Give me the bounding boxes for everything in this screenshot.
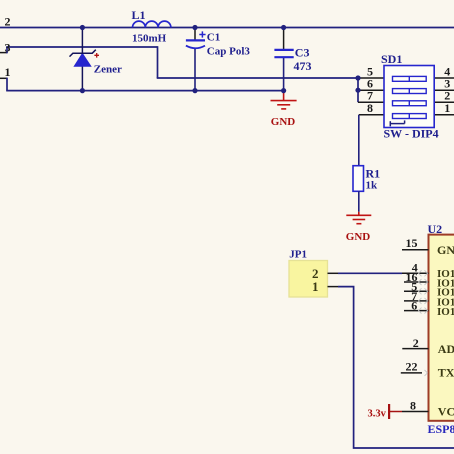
svg-text:GND: GND (437, 243, 454, 257)
switch SD1 row 4 (393, 114, 427, 119)
wire vertical x=358 to DIP pins (357, 77, 359, 102)
wire C3 top stub (283, 28, 285, 50)
wire C3 bottom stub (283, 58, 285, 91)
svg-text:2: 2 (5, 14, 11, 28)
U2 pin 2 stub (402, 348, 428, 350)
U2 pin 6 stub (404, 310, 429, 312)
U2 pin 16 stub (404, 281, 429, 283)
svg-text:GND: GND (271, 116, 296, 128)
resistor R1 body (353, 166, 364, 192)
svg-text:1: 1 (5, 65, 11, 79)
wire JP1 pin2 to U2 pin4 (338, 272, 402, 274)
inductor L1 (133, 21, 171, 27)
svg-text:15: 15 (406, 236, 418, 250)
capacitor C1 (polarized) (186, 31, 206, 48)
junction node mid-pin5 (355, 75, 360, 80)
wire pin1 vertical jog (6, 78, 8, 91)
wire R1 bottom stub (358, 191, 360, 212)
wire mid net step down x=157.5 (157, 46, 159, 78)
svg-text:JP1: JP1 (289, 249, 307, 261)
wire pin8 to R1 vertical (358, 115, 360, 166)
junction node mid-pin6 (355, 88, 360, 93)
diode D zener symbol (70, 50, 96, 66)
svg-text:473: 473 (294, 59, 312, 73)
U2 pin 5 stub (404, 290, 429, 292)
svg-text:SW - DIP4: SW - DIP4 (384, 127, 439, 141)
wire pin1 entry jog (0, 77, 7, 79)
U2 pin 22 stub (401, 372, 422, 374)
wire zener branch vertical x=82.4 (81, 28, 83, 91)
wire mid net horizontal y=47 (6, 46, 157, 48)
U2 pin 15 stub (402, 249, 429, 251)
wire JP1 pin1 down and along bottom (338, 287, 454, 448)
junction node VIN-C3 (281, 25, 286, 30)
junction node GND-zener (80, 88, 85, 93)
switch SD1 row 3 (393, 101, 427, 106)
wire gnd net horizontal y=90.6 (6, 90, 283, 92)
switch SD1 actuator (390, 120, 404, 126)
junction node VIN-C1 (192, 25, 197, 30)
ground symbol at R1 (346, 212, 371, 224)
svg-text:ADC: ADC (438, 342, 454, 356)
connector JP1 body (289, 261, 328, 298)
svg-text:C1: C1 (207, 31, 220, 43)
svg-text:U2: U2 (428, 222, 443, 236)
wire C1 bottom stub (194, 49, 196, 91)
svg-text:VCC: VCC (438, 405, 454, 419)
ground symbol at C3 (271, 91, 297, 109)
svg-text:2: 2 (413, 336, 419, 350)
svg-text:C3: C3 (295, 45, 310, 59)
svg-text:8: 8 (367, 101, 373, 115)
svg-text:1: 1 (444, 101, 450, 115)
switch SD1 row 2 (393, 89, 427, 94)
U2 pin 4 stub (402, 272, 429, 274)
svg-text:22: 22 (406, 360, 418, 374)
switch SD1 body (384, 66, 434, 128)
power port 3.3v bar (388, 404, 390, 419)
svg-text:TXD: TXD (438, 366, 454, 380)
wire pin3 net vertical jog (6, 47, 8, 53)
JP1 pin 1 stub (328, 286, 339, 288)
U2 pin 8 stub (402, 411, 429, 413)
JP1 pin 2 stub (328, 272, 339, 274)
switch SD1 row 1 (393, 76, 427, 81)
svg-text:8: 8 (410, 398, 416, 412)
wire mid net horizontal y=78 (157, 77, 358, 79)
junction node GND-C3 (281, 88, 286, 93)
IC U2 body (429, 235, 454, 421)
wire pin3 net: entry jog (0, 52, 7, 54)
U2 pin 7 stub (404, 300, 429, 302)
svg-text:R1: R1 (366, 166, 381, 180)
wire C1 top stub (194, 28, 196, 41)
svg-text:1: 1 (312, 279, 319, 294)
svg-text:ESP8266EX: ESP8266EX (428, 422, 454, 436)
svg-text:Zener: Zener (94, 63, 122, 75)
svg-text:IO16: IO16 (437, 306, 454, 318)
pin direction arrows IO pins (419, 270, 428, 376)
svg-text:6: 6 (411, 299, 417, 313)
svg-text:3: 3 (5, 40, 11, 54)
wire net VIN top y=27.5 (0, 27, 454, 29)
svg-text:GND: GND (346, 231, 371, 243)
wire 3.3v to pin 8 (390, 411, 402, 413)
svg-text:150mH: 150mH (132, 33, 167, 45)
plus mark at zener (94, 53, 99, 58)
junction node GND-C1 (192, 88, 197, 93)
capacitor C3 (274, 50, 293, 57)
svg-text:1k: 1k (366, 180, 379, 192)
svg-text:L1: L1 (132, 8, 146, 22)
switch SD1 pins right (black stubs) (434, 78, 454, 115)
svg-text:SD1: SD1 (381, 52, 402, 66)
svg-text:Cap Pol3: Cap Pol3 (207, 45, 251, 57)
svg-text:3.3v: 3.3v (368, 408, 387, 419)
switch SD1 pins left (black stubs) (358, 78, 384, 115)
junction node VIN-zener (80, 25, 85, 30)
